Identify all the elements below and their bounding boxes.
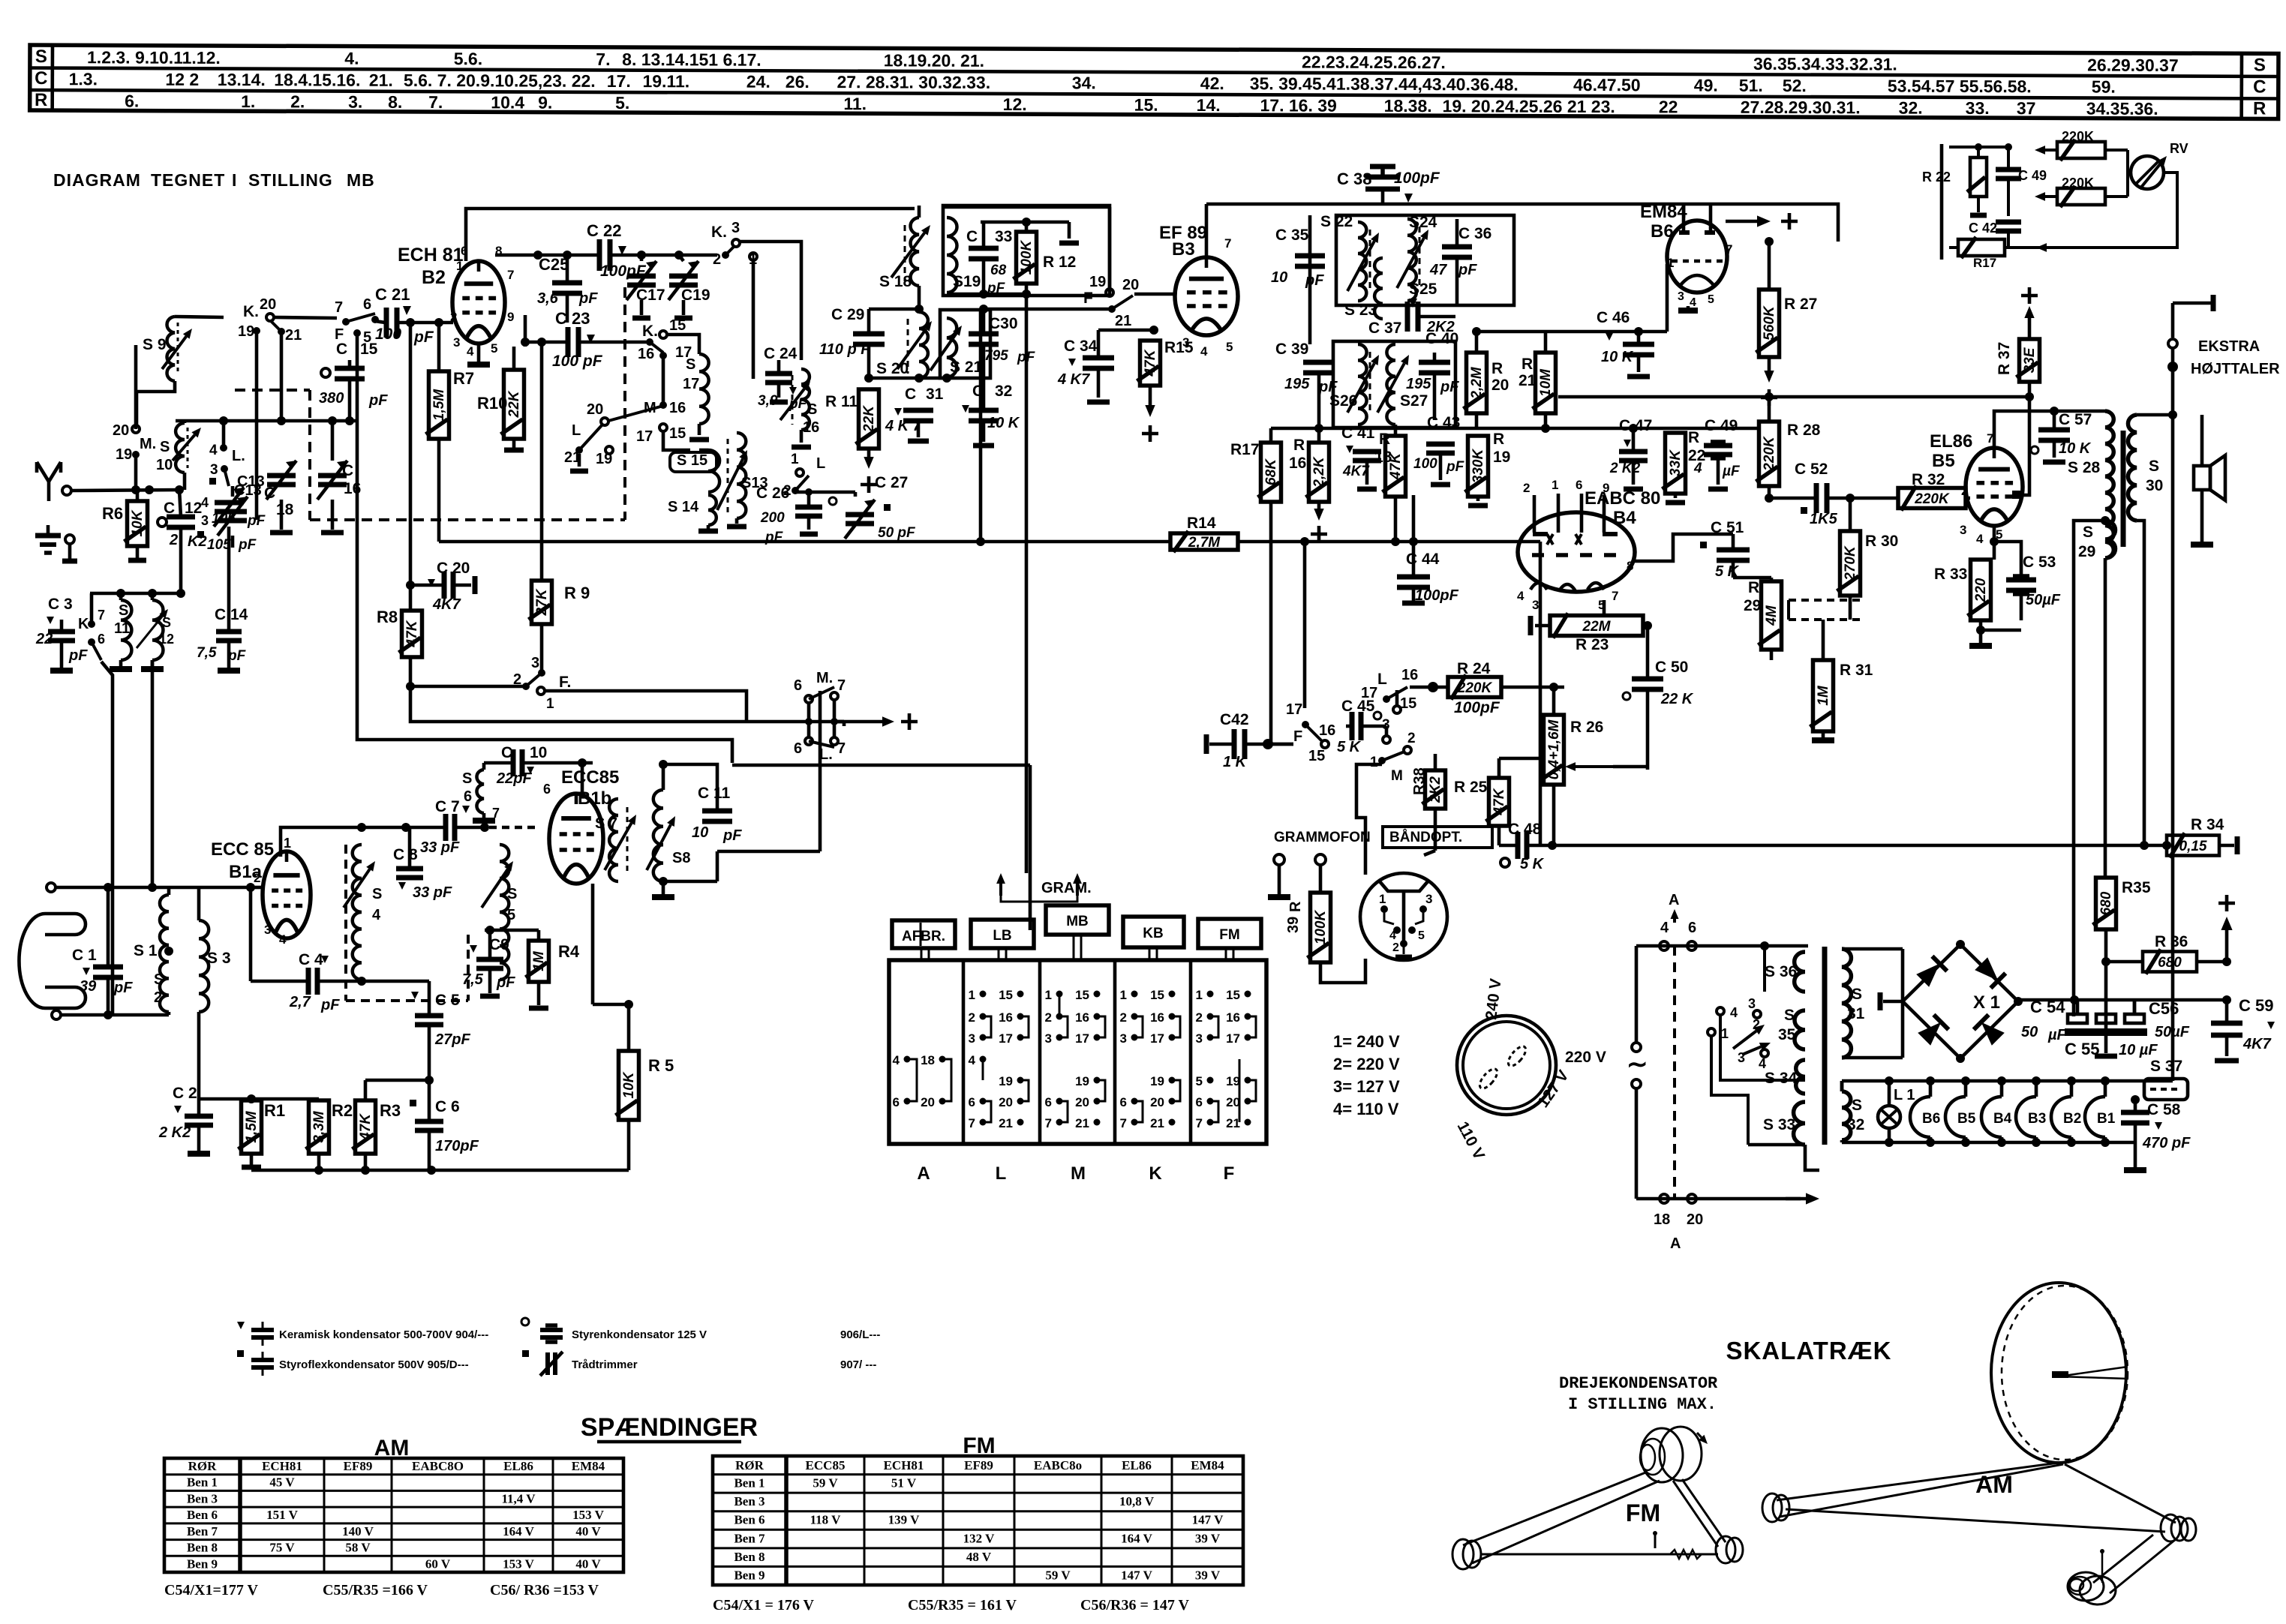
svg-text:pF: pF bbox=[238, 537, 257, 553]
svg-text:S24: S24 bbox=[1409, 214, 1437, 231]
svg-text:4: 4 bbox=[1389, 929, 1396, 942]
svg-text:10 µF: 10 µF bbox=[2119, 1042, 2158, 1058]
FM voltage table bbox=[713, 1433, 1243, 1613]
svg-text:C 55: C 55 bbox=[2065, 1040, 2099, 1058]
svg-text:pF: pF bbox=[722, 827, 742, 844]
svg-text:L.: L. bbox=[819, 746, 833, 763]
svg-text:C 35: C 35 bbox=[1275, 227, 1309, 244]
svg-text:7: 7 bbox=[1612, 589, 1618, 603]
svg-text:680: 680 bbox=[2158, 955, 2182, 971]
contact M L 6 7 plus arrow bbox=[794, 670, 918, 763]
svg-text:EL86: EL86 bbox=[1930, 431, 1972, 452]
svg-text:2: 2 bbox=[1392, 941, 1399, 954]
variable capacitor C16 bbox=[317, 421, 361, 533]
svg-text:17: 17 bbox=[683, 376, 699, 392]
label GRAMMOFON bbox=[1274, 830, 1371, 845]
svg-text:S8: S8 bbox=[672, 850, 690, 866]
svg-text:10,8 V: 10,8 V bbox=[1119, 1494, 1155, 1508]
svg-text:10 K: 10 K bbox=[2059, 440, 2092, 457]
capacitor C9 7,5pF bbox=[462, 930, 515, 996]
svg-text:0,4+1,6M: 0,4+1,6M bbox=[1546, 719, 1562, 779]
wire y561 row bbox=[176, 416, 357, 425]
svg-text:9: 9 bbox=[1603, 481, 1609, 495]
capacitor C51 5K bbox=[1700, 519, 1750, 580]
svg-text:R: R bbox=[35, 90, 47, 110]
svg-text:19.11.: 19.11. bbox=[642, 71, 689, 91]
svg-text:10K: 10K bbox=[621, 1071, 637, 1098]
speaker bbox=[2191, 415, 2225, 545]
wire grid row to EM84 pin1 bbox=[1639, 331, 1667, 332]
svg-text:B2: B2 bbox=[422, 267, 446, 288]
svg-text:1: 1 bbox=[969, 988, 975, 1002]
IF can box S19 C33 R12 bbox=[943, 206, 1110, 296]
inset 220K resistor upper bbox=[2035, 129, 2128, 161]
svg-text:75 V: 75 V bbox=[269, 1541, 295, 1555]
svg-text:16: 16 bbox=[1226, 1010, 1240, 1025]
wire S29 tap down x2764 bbox=[2074, 521, 2105, 1016]
svg-text:2.: 2. bbox=[290, 92, 305, 111]
heater loops B6 B5 B4 B3 B2 B1 bbox=[1910, 1076, 2116, 1147]
wire R29 R31 link bbox=[1771, 620, 1850, 680]
capacitor C41 4K7 bbox=[1341, 425, 1381, 489]
svg-text:S: S bbox=[1784, 1007, 1795, 1024]
resistor R25 47K bbox=[1454, 758, 1544, 826]
svg-text:B1: B1 bbox=[2097, 1111, 2116, 1127]
svg-text:100pF: 100pF bbox=[1454, 699, 1500, 716]
svg-text:RV: RV bbox=[2170, 141, 2188, 156]
svg-text:R17: R17 bbox=[1230, 441, 1260, 458]
svg-text:3: 3 bbox=[1196, 1031, 1203, 1046]
svg-text:16: 16 bbox=[1075, 1010, 1089, 1025]
capacitor C45 5K bbox=[1329, 698, 1386, 755]
svg-text:3: 3 bbox=[969, 1031, 975, 1046]
svg-text:R2: R2 bbox=[332, 1101, 353, 1120]
svg-text:R4: R4 bbox=[558, 942, 580, 961]
svg-text:FM: FM bbox=[1219, 927, 1239, 943]
svg-text:X 1: X 1 bbox=[1973, 992, 2000, 1013]
svg-text:330K: 330K bbox=[1470, 449, 1486, 484]
secondary S31 winding bbox=[1842, 949, 1903, 1058]
svg-text:C 49: C 49 bbox=[2018, 168, 2047, 183]
svg-text:Ben 9: Ben 9 bbox=[187, 1556, 218, 1571]
svg-text:R 12: R 12 bbox=[1043, 254, 1076, 271]
svg-text:8. 13.14.151 6.17.: 8. 13.14.151 6.17. bbox=[622, 50, 761, 70]
svg-text:M: M bbox=[1391, 768, 1403, 784]
output transformer S28 S29 core S30 bbox=[2068, 411, 2163, 560]
svg-text:32.: 32. bbox=[1899, 98, 1923, 118]
tube EF89 B3 bbox=[1159, 223, 1238, 359]
svg-text:6: 6 bbox=[969, 1095, 975, 1109]
svg-text:C: C bbox=[2253, 77, 2266, 97]
common electrolytic bar bbox=[2065, 1032, 2147, 1056]
svg-text:22.23.24.25.26.27.: 22.23.24.25.26.27. bbox=[1302, 53, 1446, 73]
svg-text:C: C bbox=[264, 485, 275, 502]
wire B1b cathode to R5 row bbox=[591, 884, 595, 1004]
coil S14 bbox=[668, 495, 718, 531]
svg-text:µF: µF bbox=[1722, 464, 1741, 479]
FM dial cord lines bbox=[1463, 1472, 1726, 1563]
capacitor C32 10K bbox=[962, 378, 1020, 446]
svg-text:R 24: R 24 bbox=[1457, 660, 1491, 677]
svg-text:C 11: C 11 bbox=[698, 785, 731, 802]
resistor R35 680 bbox=[2093, 878, 2151, 1031]
svg-text:170pF: 170pF bbox=[435, 1138, 479, 1154]
resistor R18 47K bbox=[1374, 425, 1406, 546]
coil S6 grounded bbox=[462, 763, 495, 821]
heading SPAENDINGER underlined bbox=[581, 1413, 758, 1442]
svg-text:20: 20 bbox=[1226, 1095, 1240, 1109]
svg-text:20: 20 bbox=[1687, 1211, 1703, 1228]
svg-text:4: 4 bbox=[893, 1053, 900, 1067]
resistor R22 33K bbox=[1663, 428, 1706, 503]
svg-text:220 V: 220 V bbox=[1565, 1049, 1606, 1066]
svg-text:EKSTRA: EKSTRA bbox=[2198, 338, 2260, 355]
wire x1373 down to switch bbox=[834, 722, 844, 726]
svg-text:C: C bbox=[342, 462, 353, 479]
svg-text:3: 3 bbox=[453, 335, 460, 350]
svg-text:S: S bbox=[507, 886, 517, 902]
svg-text:4: 4 bbox=[1759, 1056, 1766, 1071]
svg-text:42.: 42. bbox=[1200, 74, 1224, 93]
wire F1 right and down bbox=[545, 691, 746, 722]
svg-text:Ben 9: Ben 9 bbox=[734, 1568, 765, 1582]
svg-text:27. 28.31. 30.32.33.: 27. 28.31. 30.32.33. bbox=[837, 72, 990, 92]
capacitor C58 470pF bbox=[2121, 1089, 2191, 1170]
svg-text:C 57: C 57 bbox=[2059, 411, 2092, 428]
svg-text:pF: pF bbox=[413, 329, 434, 346]
capacitor C22 100pF bbox=[495, 221, 717, 280]
svg-text:220K: 220K bbox=[1457, 680, 1493, 696]
svg-text:151 V: 151 V bbox=[266, 1508, 298, 1522]
contact K 7 6 bbox=[78, 593, 105, 660]
svg-text:30: 30 bbox=[2146, 477, 2163, 494]
svg-text:118 V: 118 V bbox=[810, 1513, 842, 1527]
svg-text:AM: AM bbox=[1975, 1471, 2013, 1498]
capacitor C38 100pF bbox=[1337, 167, 1440, 204]
terminal post bbox=[62, 535, 77, 561]
wire y571 right segment bbox=[1478, 424, 1759, 433]
antenna symbol bbox=[37, 462, 61, 501]
svg-text:Ben 6: Ben 6 bbox=[187, 1508, 218, 1522]
wire R5 top row bbox=[593, 1000, 633, 1009]
svg-text:46.47.50: 46.47.50 bbox=[1573, 75, 1641, 95]
svg-text:C 54: C 54 bbox=[2030, 998, 2065, 1016]
svg-text:10: 10 bbox=[156, 457, 173, 473]
svg-text:Ben 7: Ben 7 bbox=[734, 1531, 765, 1545]
capacitor C7 33pF bbox=[420, 798, 537, 856]
svg-text:12 2: 12 2 bbox=[165, 70, 199, 89]
resistor R21 10M bbox=[1518, 332, 1556, 433]
heater bus wires bbox=[1842, 1081, 2173, 1142]
coil S9 with arrow bbox=[143, 317, 192, 381]
band tab MB bbox=[1046, 905, 1109, 960]
capacitor C56 50uF bbox=[2125, 999, 2190, 1040]
resistor R24 220K bbox=[1433, 660, 1564, 716]
wire B2 top to rail bbox=[466, 209, 915, 261]
resistor R39 100K bbox=[1285, 893, 1331, 962]
svg-text:pF: pF bbox=[320, 997, 340, 1013]
plus arrow above R36 bbox=[2218, 895, 2235, 962]
svg-text:S 20: S 20 bbox=[876, 360, 909, 377]
coil S15 bbox=[670, 450, 719, 492]
svg-text:DIAGRAM: DIAGRAM bbox=[53, 170, 141, 190]
svg-text:19: 19 bbox=[1493, 449, 1510, 466]
coil S20 variable bbox=[876, 312, 932, 378]
legend styrenkondensator symbol bbox=[521, 1318, 880, 1342]
resistor R12 100K bbox=[1014, 222, 1077, 294]
svg-text:EABC8o: EABC8o bbox=[1034, 1458, 1082, 1472]
svg-text:B3: B3 bbox=[1172, 239, 1195, 260]
primary coil S36 bbox=[1765, 952, 1805, 992]
resistor R23 22M bbox=[1531, 614, 1652, 654]
svg-text:C 36: C 36 bbox=[1458, 225, 1491, 242]
svg-text:pF: pF bbox=[1446, 459, 1465, 475]
svg-text:C42: C42 bbox=[1220, 711, 1249, 728]
svg-text:17: 17 bbox=[1226, 1031, 1240, 1046]
resistor R34 0,15 bbox=[2167, 816, 2237, 858]
tube EABC80 B4 bbox=[1517, 478, 1660, 612]
svg-text:6: 6 bbox=[1576, 478, 1582, 492]
svg-text:ECC 85: ECC 85 bbox=[211, 839, 274, 860]
svg-text:7: 7 bbox=[98, 608, 105, 623]
svg-text:20: 20 bbox=[260, 296, 276, 313]
svg-text:10M: 10M bbox=[1538, 368, 1554, 397]
IF can box S22 S24 bbox=[1336, 215, 1514, 305]
wire y412 from S21 to F contact bbox=[979, 305, 1112, 314]
svg-text:39 V: 39 V bbox=[1195, 1531, 1221, 1545]
svg-text:S: S bbox=[162, 615, 171, 630]
svg-text:5: 5 bbox=[507, 907, 515, 923]
svg-text:4K7: 4K7 bbox=[432, 596, 461, 613]
svg-text:C 27: C 27 bbox=[875, 474, 908, 491]
svg-text:5 K: 5 K bbox=[1337, 739, 1362, 755]
svg-text:19. 20.24.25.26 21 23.: 19. 20.24.25.26 21 23. bbox=[1443, 96, 1615, 116]
svg-text:C13: C13 bbox=[234, 482, 262, 499]
svg-text:16: 16 bbox=[669, 400, 686, 416]
contact K 3 2 1 top bbox=[711, 220, 757, 268]
svg-text:4: 4 bbox=[969, 1053, 976, 1067]
svg-text:C 3: C 3 bbox=[48, 596, 73, 613]
svg-text:C 42: C 42 bbox=[1969, 221, 1997, 236]
coil S21 variable bbox=[930, 318, 983, 377]
svg-text:15: 15 bbox=[1400, 695, 1416, 712]
svg-text:SPÆNDINGER: SPÆNDINGER bbox=[581, 1413, 758, 1442]
svg-text:TEGNET: TEGNET bbox=[151, 170, 225, 190]
wire EM84 plus arrow bbox=[1697, 197, 1798, 230]
capacitor C43 100pF bbox=[1413, 414, 1465, 485]
switch S37 bbox=[2144, 1058, 2188, 1100]
svg-text:1: 1 bbox=[1370, 755, 1378, 770]
inset R17 resistor bbox=[1949, 237, 2036, 270]
svg-text:4: 4 bbox=[1200, 344, 1208, 359]
svg-text:47K: 47K bbox=[358, 1113, 374, 1141]
svg-text:6: 6 bbox=[543, 782, 551, 797]
svg-text:K.: K. bbox=[243, 303, 259, 320]
svg-text:C54/X1=177 V: C54/X1=177 V bbox=[164, 1582, 258, 1598]
wire C11 to x1093 bbox=[717, 764, 820, 851]
svg-text:3: 3 bbox=[1532, 598, 1539, 612]
power top wire bbox=[1636, 892, 1808, 950]
svg-text:17: 17 bbox=[1286, 701, 1302, 718]
GRAM label and arrows bbox=[996, 873, 1092, 902]
svg-text:S 34: S 34 bbox=[1765, 1070, 1798, 1087]
svg-text:380: 380 bbox=[319, 390, 344, 407]
svg-text:R 25: R 25 bbox=[1454, 779, 1488, 796]
inset R22 resistor bbox=[1922, 147, 1987, 215]
svg-text:S 37: S 37 bbox=[2150, 1058, 2182, 1075]
svg-text:EF89: EF89 bbox=[964, 1458, 993, 1472]
AM dial drum circle bbox=[1991, 1283, 2128, 1463]
capacitor C25 3,6pF bbox=[537, 255, 598, 323]
svg-text:4.: 4. bbox=[344, 49, 359, 68]
svg-text:10.4: 10.4 bbox=[491, 92, 524, 112]
svg-text:R: R bbox=[1379, 431, 1390, 448]
resistor R31 1M bbox=[1810, 620, 1873, 740]
svg-text:33 pF: 33 pF bbox=[420, 839, 460, 856]
svg-text:R17: R17 bbox=[1973, 256, 1996, 270]
svg-text:18: 18 bbox=[1654, 1211, 1670, 1228]
svg-text:560K: 560K bbox=[1762, 305, 1777, 341]
resistor R32 220K bbox=[1850, 471, 1970, 511]
contact F 19 20 21 at EF89 bbox=[1083, 222, 1139, 329]
svg-text:K: K bbox=[78, 616, 89, 632]
heater winding S32 bbox=[1842, 1081, 1864, 1142]
capacitor C15 380pF bbox=[319, 341, 388, 421]
svg-text:M.: M. bbox=[140, 436, 156, 452]
svg-text:1M: 1M bbox=[531, 950, 547, 971]
svg-text:4M: 4M bbox=[1764, 605, 1780, 626]
svg-text:4K7: 4K7 bbox=[2242, 1036, 2272, 1052]
wire S30 to speaker and down bbox=[2137, 410, 2177, 850]
svg-text:100: 100 bbox=[375, 326, 401, 343]
svg-text:53.54.57 55.56.58.: 53.54.57 55.56.58. bbox=[1888, 77, 2032, 97]
band switch column letters bbox=[917, 1163, 1234, 1184]
svg-text:1: 1 bbox=[791, 452, 799, 467]
AM label bbox=[1975, 1471, 2013, 1498]
svg-text:4 K7: 4 K7 bbox=[1057, 371, 1090, 388]
wire top right rail to R27 bbox=[1711, 237, 1838, 246]
svg-text:220: 220 bbox=[1973, 578, 1989, 602]
svg-text:R: R bbox=[1491, 360, 1503, 377]
coil S3 bbox=[199, 887, 231, 1099]
svg-text:pF: pF bbox=[1318, 379, 1338, 395]
svg-text:220K: 220K bbox=[1762, 436, 1777, 472]
svg-text:1K5: 1K5 bbox=[1810, 511, 1838, 527]
svg-text:L: L bbox=[996, 1163, 1007, 1184]
svg-text:33: 33 bbox=[995, 228, 1012, 245]
capacitor C11 10pF bbox=[692, 782, 742, 881]
resistor R36 680 bbox=[2101, 933, 2231, 974]
wire grid B1a y1183 bbox=[246, 871, 263, 892]
svg-text:37: 37 bbox=[2017, 98, 2036, 118]
wire switch feed vertical x1373 bbox=[1029, 765, 1032, 930]
svg-text:24.: 24. bbox=[746, 72, 771, 92]
resistor R10 22K bbox=[477, 347, 524, 450]
svg-text:Styrenkondensator 125 V: Styrenkondensator 125 V bbox=[572, 1328, 707, 1341]
contacts 20 19 M bbox=[113, 345, 140, 490]
svg-text:5.6. 7. 20.9.10.25,23. 22.: 5.6. 7. 20.9.10.25,23. 22. bbox=[404, 71, 596, 91]
svg-text:19: 19 bbox=[1089, 274, 1106, 290]
svg-text:R: R bbox=[1688, 429, 1699, 446]
wire box area feeds bbox=[1308, 215, 1312, 344]
svg-text:pF: pF bbox=[113, 980, 133, 996]
svg-text:11,4 V: 11,4 V bbox=[501, 1491, 536, 1505]
svg-text:Ben 8: Ben 8 bbox=[187, 1541, 218, 1555]
svg-text:1.2.3. 9.10.11.12.: 1.2.3. 9.10.11.12. bbox=[87, 47, 221, 68]
svg-text:906/L---: 906/L--- bbox=[840, 1328, 880, 1341]
svg-text:17.: 17. bbox=[607, 71, 631, 91]
svg-text:3,6: 3,6 bbox=[537, 290, 559, 307]
wire C26 row bbox=[795, 492, 855, 497]
svg-text:C 39: C 39 bbox=[1275, 341, 1308, 358]
svg-text:MB: MB bbox=[1066, 914, 1089, 929]
svg-text:R 22: R 22 bbox=[1922, 170, 1951, 185]
svg-text:17: 17 bbox=[999, 1031, 1013, 1046]
svg-text:22 K: 22 K bbox=[1660, 691, 1694, 707]
svg-text:5 K: 5 K bbox=[1520, 856, 1545, 872]
svg-text:S 23: S 23 bbox=[1344, 302, 1377, 319]
capacitor C4 2,7pF bbox=[251, 887, 429, 1013]
IF can box S26 S27 bbox=[1333, 341, 1455, 428]
wire box top to EF89 bbox=[943, 207, 1110, 222]
svg-text:47K: 47K bbox=[1143, 349, 1158, 377]
svg-text:L: L bbox=[1377, 671, 1387, 688]
svg-text:29: 29 bbox=[1744, 597, 1761, 614]
svg-text:7: 7 bbox=[1726, 242, 1732, 257]
coil S27 variable bbox=[1377, 344, 1428, 425]
svg-text:C: C bbox=[336, 341, 347, 358]
svg-text:LB: LB bbox=[993, 928, 1011, 944]
svg-text:26.29.30.37: 26.29.30.37 bbox=[2087, 56, 2179, 75]
wire plate B1a to C7 row bbox=[281, 823, 444, 857]
legend traadtrimmer symbol bbox=[522, 1350, 876, 1376]
coil S12 bbox=[137, 593, 174, 669]
svg-text:3: 3 bbox=[201, 513, 209, 528]
svg-text:48 V: 48 V bbox=[966, 1550, 992, 1564]
svg-text:100K: 100K bbox=[1019, 240, 1035, 275]
wire B1b top to C10 junction bbox=[582, 763, 608, 794]
wire S9 bottom jog bbox=[137, 381, 175, 425]
svg-text:EL86: EL86 bbox=[1122, 1458, 1152, 1472]
wire B2 cathode ground bbox=[467, 344, 490, 365]
wire EL86 screen to R37 node bbox=[2012, 397, 2029, 499]
coil S1 S2 bbox=[108, 887, 251, 1015]
capacitor C59 4K7 bbox=[2211, 996, 2275, 1061]
coil S26 variable bbox=[1329, 344, 1379, 425]
svg-text:7: 7 bbox=[1045, 1116, 1052, 1130]
long rail y722 bbox=[439, 309, 1540, 546]
svg-text:20: 20 bbox=[587, 401, 603, 418]
svg-text:C 46: C 46 bbox=[1597, 309, 1630, 326]
dipole terminals bbox=[47, 883, 108, 1019]
resistor R33 220 bbox=[1934, 560, 1994, 640]
svg-text:33E: 33E bbox=[2022, 347, 2038, 373]
svg-text:1: 1 bbox=[1721, 1026, 1729, 1041]
svg-text:17. 16. 39: 17. 16. 39 bbox=[1260, 95, 1336, 115]
contact L 1 2 bbox=[783, 452, 825, 499]
capacitor C48 5K bbox=[1499, 821, 1552, 872]
primary coil S33 bbox=[1763, 1102, 1805, 1145]
capacitor C33 68pF bbox=[966, 222, 1012, 296]
wire EABC80 cathode down bbox=[1603, 600, 1606, 617]
svg-text:26.: 26. bbox=[786, 72, 810, 92]
resistor R19 330K bbox=[1465, 428, 1511, 506]
resistor R7 1,5M bbox=[426, 318, 475, 542]
svg-text:3: 3 bbox=[1738, 1050, 1745, 1065]
svg-text:Ben 1: Ben 1 bbox=[734, 1476, 765, 1490]
svg-text:pF: pF bbox=[1440, 379, 1459, 395]
svg-text:153 V: 153 V bbox=[572, 1508, 604, 1522]
